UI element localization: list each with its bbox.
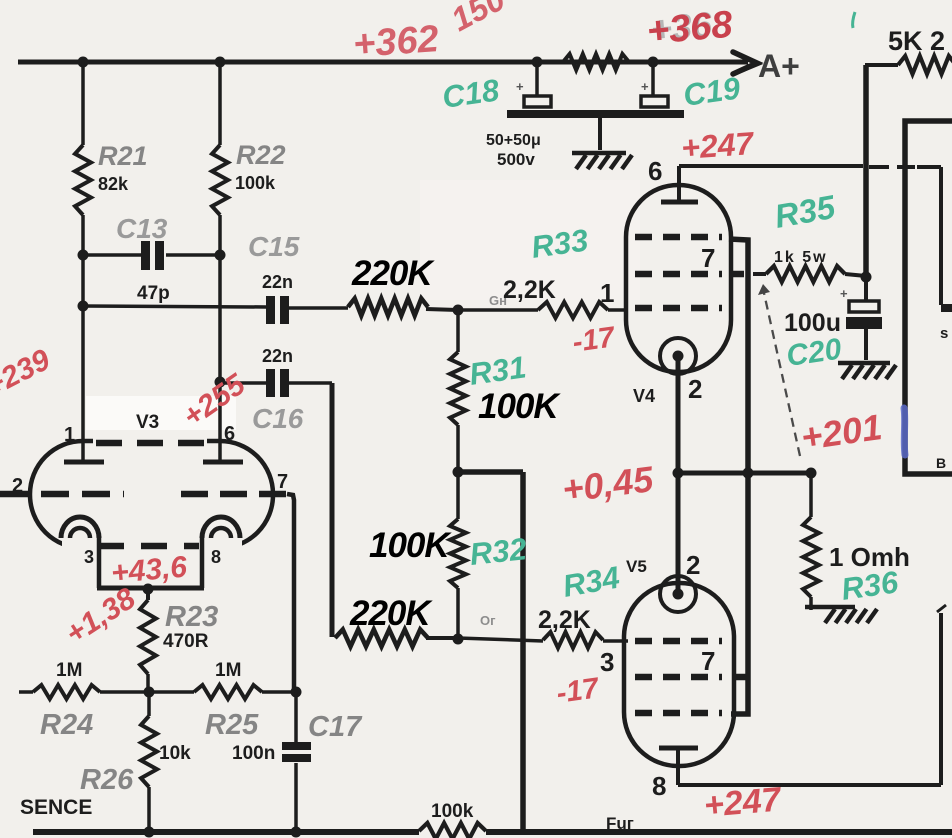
ground (C20): [838, 363, 896, 379]
label B (right edge): [936, 455, 946, 471]
svg-text:22n: 22n: [262, 272, 293, 292]
svg-text:+362: +362: [352, 18, 440, 66]
resistor R35 1k 5w: [753, 266, 866, 282]
value 22n (C16): [262, 346, 293, 366]
svg-text:R26: R26: [80, 764, 134, 796]
value 470R: [163, 631, 209, 652]
annotation -17 (V4 grid): [571, 321, 619, 359]
label s (right edge): [940, 325, 948, 342]
node grid junction (458,310): [453, 305, 464, 316]
label C17: [308, 711, 363, 743]
value label 100K lower: [369, 526, 452, 565]
svg-text:100k: 100k: [431, 801, 474, 822]
node R22-C16 junction: [215, 377, 226, 388]
svg-text:C15: C15: [248, 231, 300, 262]
label C15: [248, 231, 300, 262]
svg-text:B: B: [936, 455, 946, 471]
svg-text:1M: 1M: [215, 660, 241, 681]
svg-text:6: 6: [224, 423, 235, 445]
value 500v: [497, 150, 535, 169]
resistor R32: [450, 472, 466, 637]
wire riser at right edge (to output transformer): [937, 605, 946, 785]
annotation +247 bottom: [702, 780, 784, 825]
annotation +0,45: [560, 458, 656, 510]
tube V4 envelope: [626, 185, 731, 372]
svg-text:2: 2: [688, 374, 702, 404]
tube V4 cathode circle (pin 2): [660, 338, 696, 374]
svg-text:R23: R23: [165, 601, 218, 633]
label R23: [165, 601, 218, 633]
capacitor C17 100n: [282, 692, 311, 832]
svg-text:3: 3: [600, 647, 614, 677]
svg-text:6: 6: [648, 156, 662, 186]
svg-text:3: 3: [84, 547, 94, 567]
resistor R22 100k: [212, 62, 228, 461]
svg-text:+247: +247: [702, 780, 784, 825]
capacitor C16 22n: [220, 369, 332, 637]
tube V3 heater dashes bottom: [98, 543, 199, 550]
wire bar to ground: [598, 118, 602, 150]
svg-text:2,2K: 2,2K: [503, 276, 556, 304]
svg-text:100K: 100K: [369, 526, 452, 565]
tube V5 plate (pin 8): [659, 748, 698, 785]
annotation +201: [798, 406, 884, 458]
svg-text:220K: 220K: [351, 254, 435, 293]
svg-text:22n: 22n: [262, 346, 293, 366]
ground (filter caps): [572, 153, 632, 169]
label R32 (teal): [468, 531, 528, 572]
tube V4 grid row 1: [635, 234, 722, 241]
svg-text:1: 1: [600, 278, 614, 308]
capacitor C20 100u: [846, 277, 882, 360]
tube V5 grid row 2 (pin 7): [635, 674, 746, 681]
wire pin6 net dashed continuation: [869, 167, 941, 305]
svg-text:s: s: [940, 325, 948, 342]
svg-text:2: 2: [12, 475, 23, 497]
label C18 (teal): [440, 72, 502, 115]
value label 220K lower: [349, 594, 433, 633]
svg-text:C17: C17: [308, 711, 363, 743]
pin 8 label V3: [211, 547, 221, 567]
label R26: [80, 764, 134, 796]
svg-text:1k 5w: 1k 5w: [774, 249, 828, 266]
node R23-R24-R26 junction: [144, 687, 155, 698]
node R26-bus junction: [144, 827, 155, 838]
svg-text:R32: R32: [468, 531, 528, 572]
svg-text:V5: V5: [626, 557, 647, 576]
wire bottom bus: [33, 829, 952, 835]
value label 100K upper: [478, 387, 561, 426]
resistor 220K lower (hand-drawn): [335, 630, 458, 647]
tube V3 heater dashes top: [96, 440, 205, 447]
svg-text:50+50μ: 50+50μ: [486, 132, 541, 149]
node R21-C13 junction: [78, 250, 89, 261]
net label Gn: [489, 293, 507, 308]
wire cathode bias row: [678, 471, 811, 476]
svg-text:2,2K: 2,2K: [538, 606, 591, 634]
svg-text:100k: 100k: [235, 173, 276, 193]
node rail-R22 junction: [215, 57, 226, 68]
resistor R23 470R: [140, 589, 156, 692]
wire feedback row: [19, 690, 33, 694]
net label Fur: [606, 814, 634, 833]
resistor R34 2,2K: [543, 632, 628, 648]
ground (R36): [805, 607, 877, 623]
annotation +362: [352, 18, 440, 66]
node V4/V5 cathode junction: [673, 468, 684, 479]
pin 6 label V4: [648, 156, 662, 186]
label C16: [252, 403, 304, 434]
svg-text:+: +: [840, 286, 848, 301]
value 50+50u: [486, 132, 541, 149]
label R34 (teal): [560, 560, 622, 604]
node rail-R21 junction: [78, 57, 89, 68]
label V4: [633, 386, 655, 406]
svg-text:470R: 470R: [163, 631, 209, 652]
resistor filter (on rail, hand-bolded): [563, 54, 653, 70]
wire node to R33: [458, 308, 538, 312]
wire node to R34: [458, 638, 543, 641]
tube V5 grid row 3: [635, 710, 722, 717]
wire output bracket outer: [905, 121, 952, 474]
tube V4 grid row 3: [635, 305, 722, 312]
resistor R25 1M: [194, 685, 296, 699]
tube V3 grid dashed row (pins 2,7): [0, 491, 287, 498]
svg-text:100K: 100K: [478, 387, 561, 426]
label C13: [116, 213, 168, 244]
blue pen streak: [904, 408, 905, 455]
wire V3 pin7 to lower bus: [287, 494, 294, 692]
tube V3 plate (pin 1): [64, 460, 104, 465]
label R33 (teal): [529, 222, 590, 265]
value 10k: [159, 743, 191, 764]
value 82k: [98, 174, 129, 194]
svg-text:C16: C16: [252, 403, 304, 434]
label R31 (teal): [467, 349, 528, 392]
svg-text:8: 8: [211, 547, 221, 567]
pin 1 label V3: [64, 424, 75, 446]
wire junction to x523 corner and down to bottom: [458, 472, 523, 834]
capacitor C13 47p: [83, 241, 220, 270]
polarity + mark C18: [516, 79, 524, 94]
pin 2 label V4: [688, 374, 702, 404]
resistor R36 1 Ohm: [803, 473, 819, 610]
value label 220K upper: [351, 254, 435, 293]
svg-text:7: 7: [277, 471, 288, 493]
svg-text:2: 2: [686, 550, 700, 580]
value 1k 5w: [774, 249, 828, 266]
node A+ arrow: [733, 52, 758, 74]
resistor 5K 2 (top right, cut): [865, 56, 952, 74]
annotation +239 left edge (rotated): [0, 343, 56, 403]
pin 1 label V4: [600, 278, 614, 308]
node C17-bus junction: [291, 827, 302, 838]
svg-text:SENCE: SENCE: [20, 796, 92, 819]
pin 7 label V5: [701, 646, 715, 676]
wire 5K2 down to R35/C20: [863, 65, 869, 278]
value 47p: [137, 283, 170, 304]
svg-text:82k: 82k: [98, 174, 129, 194]
pin 2 label V5: [686, 550, 700, 580]
value 1 Omh: [829, 542, 910, 572]
node cathode junction: [143, 584, 154, 595]
resistor 220K upper (hand-drawn): [348, 299, 458, 316]
node rail-C18 junction: [532, 57, 543, 68]
resistor R26 10k: [141, 692, 157, 832]
wire V4 plate to right (pin 6 net): [679, 164, 863, 168]
resistor R24 1M: [33, 685, 194, 699]
node R31-R32 junction: [453, 467, 464, 478]
svg-text:-17: -17: [571, 321, 619, 359]
label R24: [40, 709, 93, 741]
pin 7 label V4: [701, 243, 715, 273]
wire A+ supply rail: [18, 60, 748, 65]
tube V3 cathode left: [61, 517, 99, 588]
resistor R21 82k: [75, 62, 91, 461]
node R22-C13 junction: [215, 250, 226, 261]
annotation +43,6: [110, 550, 189, 590]
svg-text:+: +: [641, 79, 649, 94]
wire V4 row1 to vertical bus: [729, 239, 748, 714]
tube V3 cathode right: [202, 517, 240, 588]
annotation +255 (rotated): [177, 367, 252, 434]
value 2,2K (R33): [503, 276, 556, 304]
annotation 150 (rotated): [445, 0, 512, 38]
svg-text:+368: +368: [645, 4, 735, 53]
annotation +368: [645, 4, 735, 53]
node bus junction (748,473): [743, 468, 754, 479]
wire stub to right edge: [941, 304, 952, 312]
wire cathode bracket pins 3-8: [97, 586, 204, 591]
pin 6 label V3: [224, 423, 235, 445]
svg-text:V4: V4: [633, 386, 655, 406]
wire R21 to C15: [83, 306, 266, 307]
svg-text:+247: +247: [680, 125, 757, 166]
node rail-C19 junction: [648, 57, 659, 68]
svg-text:1: 1: [64, 424, 75, 446]
net label SENCE: [20, 796, 92, 819]
svg-text:V3: V3: [136, 412, 159, 433]
value 2,2K (R34): [538, 606, 591, 634]
polarity + mark C19: [641, 79, 649, 94]
wire V4 cathode down to V5 cathode: [676, 361, 681, 592]
pin 2 label V3: [12, 475, 23, 497]
node R36 top junction: [806, 468, 817, 479]
label C19 (teal): [681, 70, 743, 113]
tube V4 grid row 2 (pin 7): [635, 271, 744, 278]
capacitor C18: [524, 62, 551, 107]
value 100k: [235, 173, 276, 193]
value 100u: [784, 309, 841, 337]
label R22: [236, 140, 286, 170]
polarity + mark C20: [840, 286, 848, 301]
label R21: [98, 141, 148, 171]
svg-text:1M: 1M: [56, 660, 82, 681]
tube V5 envelope: [624, 583, 734, 766]
svg-text:8: 8: [652, 771, 666, 801]
tube V5 grid row 1: [635, 638, 722, 645]
svg-text:A+: A+: [758, 48, 800, 84]
tube V3 plate (pin 6): [203, 460, 243, 465]
tube V3 envelope: [30, 434, 273, 557]
value 100k bottom: [431, 801, 474, 822]
value 1M (R24): [56, 660, 82, 681]
label R36 (teal): [839, 564, 901, 607]
net label A+: [758, 48, 800, 84]
tube V5 cathode circle (pin 2): [660, 576, 696, 612]
label R25: [205, 709, 259, 741]
node R35-C20 junction: [861, 272, 872, 283]
annotation -17 (V5 grid): [555, 672, 603, 710]
svg-text:7: 7: [701, 243, 715, 273]
tube V4 plate (pin 6): [661, 166, 698, 202]
pin 8 label V5: [652, 771, 666, 801]
svg-text:R25: R25: [205, 709, 259, 741]
annotation teal tick top right: [853, 12, 855, 28]
svg-text:47p: 47p: [137, 283, 170, 304]
svg-text:220K: 220K: [349, 594, 433, 633]
svg-text:R21: R21: [98, 141, 148, 171]
capacitor C19: [641, 62, 668, 107]
svg-text:R22: R22: [236, 140, 286, 170]
annotation +247 top: [680, 125, 757, 166]
annotation +1,38 (rotated): [60, 582, 142, 651]
svg-text:C13: C13: [116, 213, 168, 244]
value 100n: [232, 743, 275, 764]
value 22n (C15): [262, 272, 293, 292]
resistor R31: [450, 310, 466, 472]
svg-text:-17: -17: [555, 672, 603, 710]
capacitor C15 22n: [266, 296, 348, 324]
svg-text:7: 7: [701, 646, 715, 676]
label R35 (teal): [772, 188, 839, 235]
svg-text:+: +: [516, 79, 524, 94]
pin 3 label V3: [84, 547, 94, 567]
svg-text:Oг: Oг: [480, 613, 496, 628]
pin 3 label V5: [600, 647, 614, 677]
label V5: [626, 557, 647, 576]
resistor 100k bottom: [419, 823, 486, 838]
node R32-220K-R34 junction: [453, 634, 464, 645]
value 1M (R25): [215, 660, 241, 681]
annotation pencil arrow to R35: [758, 284, 800, 456]
net label Or: [480, 613, 496, 628]
label V3: [136, 412, 159, 433]
node R25-C17 junction: [291, 687, 302, 698]
resistor R33 2,2K: [538, 302, 628, 318]
svg-text:5K 2: 5K 2: [888, 26, 945, 56]
node R21 bottom junction: [78, 301, 89, 312]
svg-text:500v: 500v: [497, 150, 535, 169]
wire common plate bar C18/C19: [507, 110, 684, 118]
value 5K 2: [888, 26, 945, 56]
wire V5 plate to right edge: [678, 783, 941, 787]
label C20 (teal): [784, 333, 843, 373]
pin 7 label V3: [277, 471, 288, 493]
svg-text:Fuг: Fuг: [606, 814, 634, 833]
svg-text:10k: 10k: [159, 743, 191, 764]
svg-text:100n: 100n: [232, 743, 275, 764]
svg-text:R24: R24: [40, 709, 93, 741]
